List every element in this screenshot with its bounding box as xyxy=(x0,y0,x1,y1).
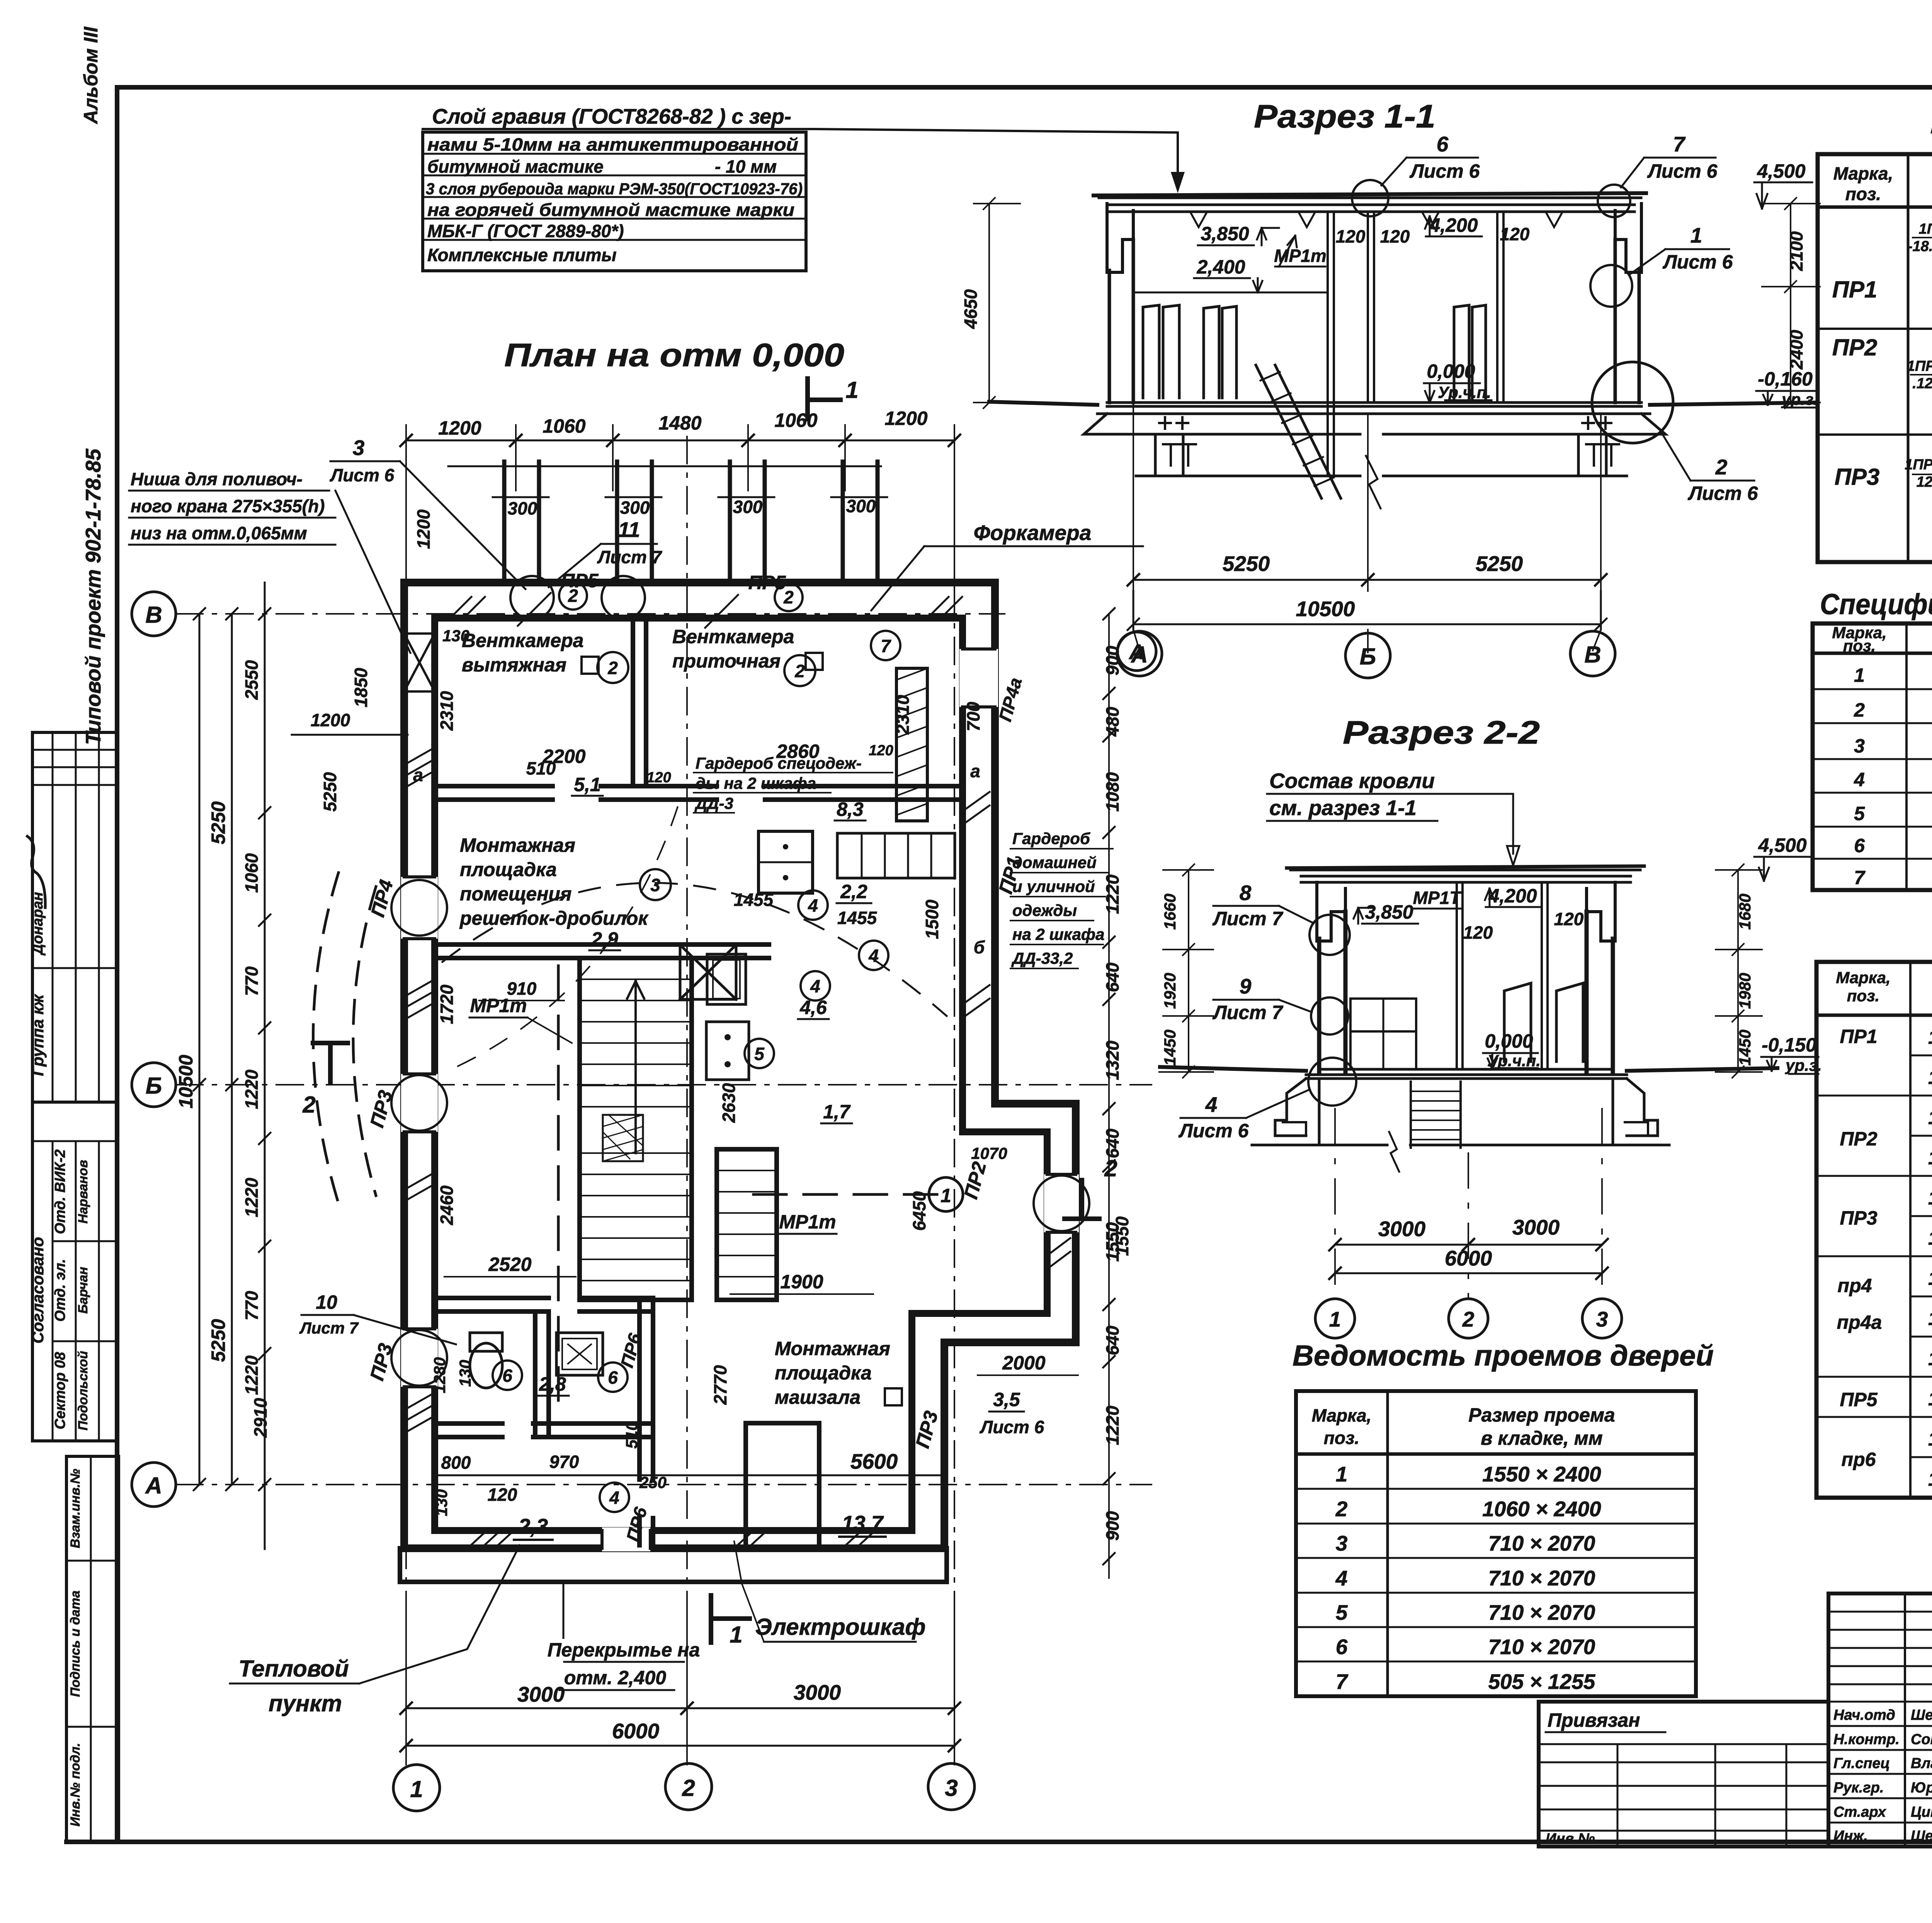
svg-text:вытяжная: вытяжная xyxy=(462,654,566,676)
svg-text:10500: 10500 xyxy=(1296,597,1355,621)
section dim line 10500 xyxy=(1133,623,1601,625)
spec line 1 underline xyxy=(423,128,815,130)
svg-text:ного крана 275×355(h): ного крана 275×355(h) xyxy=(131,496,325,516)
svg-text:1: 1 xyxy=(845,377,858,403)
LINTEL-SCHEDULE xyxy=(1818,104,1932,564)
svg-text:Отд. ВИК-2: Отд. ВИК-2 xyxy=(52,1149,68,1234)
svg-text:поз.: поз. xyxy=(1845,184,1881,204)
right wall xyxy=(1615,240,1639,403)
svg-text:2520: 2520 xyxy=(488,1254,531,1275)
LEFT-MARGIN xyxy=(15,26,119,1842)
svg-text:1850: 1850 xyxy=(351,668,371,707)
svg-text:1: 1 xyxy=(1336,1462,1348,1486)
svg-text:Венткамера: Венткамера xyxy=(672,626,794,647)
svg-text:- 10 мм: - 10 мм xyxy=(715,156,777,177)
circled room 6 b xyxy=(598,1362,628,1392)
fill spec outline xyxy=(1813,623,1932,890)
svg-text:1220: 1220 xyxy=(241,1355,262,1395)
left dim line section xyxy=(988,204,990,403)
leader from spec to section roof xyxy=(815,129,1178,182)
svg-text:5: 5 xyxy=(1336,1600,1348,1624)
axis bubble B xyxy=(132,1063,176,1107)
svg-text:Ведомость перемычек: Ведомость перемычек xyxy=(1930,104,1932,140)
svg-text:битумной мастике: битумной мастике xyxy=(427,156,604,177)
svg-text:300: 300 xyxy=(733,497,763,517)
svg-text:1720: 1720 xyxy=(437,984,457,1024)
section axis bubble V xyxy=(1570,631,1615,676)
svg-text:Лист 6: Лист 6 xyxy=(1663,251,1733,273)
svg-text:Марка,: Марка, xyxy=(1836,968,1890,987)
ground line right xyxy=(1650,403,1816,405)
svg-text:3: 3 xyxy=(1596,1307,1608,1331)
svg-text:отм. 2,400: отм. 2,400 xyxy=(564,1667,666,1689)
svg-text:1200: 1200 xyxy=(884,408,927,429)
circled room 6 a xyxy=(493,1361,522,1390)
svg-text:1ПР38-15.: 1ПР38-15. xyxy=(1905,457,1932,473)
top dim ticks xyxy=(400,435,960,446)
svg-text:4: 4 xyxy=(810,976,820,996)
svg-text:ПР2: ПР2 xyxy=(960,1159,990,1201)
svg-text:5600: 5600 xyxy=(850,1449,898,1473)
svg-text:1200: 1200 xyxy=(311,710,350,730)
svg-text:1500: 1500 xyxy=(922,899,942,939)
svg-text:6000: 6000 xyxy=(612,1719,660,1743)
svg-text:3: 3 xyxy=(650,875,660,895)
roof beam ticks xyxy=(1190,212,1563,227)
right dim 2-2 xyxy=(1737,870,1739,1072)
partition vent rooms horizontal xyxy=(435,786,963,800)
frame top border xyxy=(117,85,1932,90)
right dim ticks xyxy=(1103,608,1115,1565)
partition WC vertical xyxy=(535,1311,549,1437)
slab edge line below wall xyxy=(400,1548,947,1582)
svg-text:1.138 - 10 вып.1: 1.138 - 10 вып.1 xyxy=(1928,1388,1932,1410)
node circle 2 xyxy=(1592,362,1673,443)
svg-text:2: 2 xyxy=(607,658,618,678)
roof top edge xyxy=(1094,193,1646,195)
svg-text:3 слоя рубероида марки РЭМ-350: 3 слоя рубероида марки РЭМ-350(ГОСТ10923… xyxy=(426,180,803,198)
LINTEL-SPEC-TABLE xyxy=(1816,921,1932,1498)
second dim line xyxy=(448,465,881,467)
svg-text:2: 2 xyxy=(1104,1155,1117,1181)
svg-text:1.138 - 10 вып.1: 1.138 - 10 вып.1 xyxy=(1928,1468,1932,1490)
svg-text:Монтажная: Монтажная xyxy=(775,1338,890,1359)
axis line B horizontal xyxy=(176,1084,1151,1086)
svg-text:Шейко: Шейко xyxy=(1911,1707,1932,1723)
svg-text:2: 2 xyxy=(1335,1497,1348,1521)
svg-text:Б: Б xyxy=(1360,644,1376,669)
svg-text:1450: 1450 xyxy=(1161,1029,1179,1065)
second stair treads xyxy=(717,1170,777,1277)
left dim 2-2 xyxy=(1188,870,1189,1072)
circled room 4 a xyxy=(798,890,828,920)
fill spec header rule xyxy=(1813,652,1932,655)
circled room 5 xyxy=(745,1039,774,1068)
svg-text:1680: 1680 xyxy=(1736,894,1754,929)
svg-text:Б: Б xyxy=(146,1073,162,1099)
svg-text:поз.: поз. xyxy=(1843,637,1876,655)
niche leader xyxy=(335,491,410,653)
svg-text:6: 6 xyxy=(1336,1635,1348,1659)
PLAN-TITLE xyxy=(504,337,859,419)
wall opening white right annex xyxy=(1044,1174,1079,1232)
svg-text:6: 6 xyxy=(1854,835,1865,856)
svg-text:2,3: 2,3 xyxy=(518,1514,548,1538)
svg-text:1: 1 xyxy=(1854,664,1865,686)
svg-text:Шевлякова: Шевлякова xyxy=(1911,1828,1932,1844)
foundation 2-2 left xyxy=(1275,1079,1319,1145)
svg-text:ПР3: ПР3 xyxy=(1835,464,1880,490)
lintel spec row rules partial xyxy=(1910,1055,1932,1457)
svg-text:Инж.: Инж. xyxy=(1833,1828,1868,1844)
wall opening white left 2 xyxy=(401,1074,438,1132)
bottom dims 2-2 extensions xyxy=(1335,1109,1602,1298)
svg-text:120: 120 xyxy=(1554,909,1584,929)
right dim line xyxy=(1108,614,1110,1578)
svg-text:Отд. эл.: Отд. эл. xyxy=(52,1259,68,1322)
svg-text:4: 4 xyxy=(1205,1092,1218,1116)
svg-text:510: 510 xyxy=(526,758,556,778)
foundation footing rects xyxy=(1283,1122,1648,1136)
svg-text:2: 2 xyxy=(1854,699,1865,721)
svg-text:Тепловой: Тепловой xyxy=(238,1656,349,1682)
FILL-SPEC-TABLE xyxy=(1813,588,1932,892)
svg-text:1.138 - 10 вып.1: 1.138 - 10 вып.1 xyxy=(1928,1147,1932,1169)
signature grid columns xyxy=(1905,1593,1932,1847)
svg-text:Ст.арх: Ст.арх xyxy=(1833,1804,1887,1820)
breakline xyxy=(1366,456,1381,508)
svg-text:1450: 1450 xyxy=(1736,1029,1754,1065)
signature grid outline xyxy=(1828,1593,1932,1847)
svg-text:Спецификация элементов заполне: Спецификация элементов заполнения проемо… xyxy=(1820,588,1932,620)
interior column 2 xyxy=(1368,212,1374,403)
svg-text:Комплексные плиты: Комплексные плиты xyxy=(427,245,617,265)
fill spec row rules xyxy=(1813,689,1932,859)
svg-text:в кладке, мм: в кладке, мм xyxy=(1481,1427,1602,1449)
hatched duct shaft xyxy=(896,668,927,821)
wash basin lower xyxy=(556,1333,603,1375)
stair below 2-2 xyxy=(1411,1082,1461,1148)
svg-text:Лист 6: Лист 6 xyxy=(330,465,395,485)
opening circles left wall xyxy=(391,880,447,936)
svg-text:2550: 2550 xyxy=(241,660,262,700)
wall hatch bottom xyxy=(468,1531,875,1548)
foundation slab xyxy=(1084,414,1665,434)
left dim ticks xyxy=(194,608,270,1490)
svg-text:Лист 7: Лист 7 xyxy=(1213,908,1284,929)
door leafs 2-2 xyxy=(1504,983,1583,1062)
stair hatch patch xyxy=(603,1115,643,1161)
axis bubble 1 bottom xyxy=(393,1765,440,1811)
svg-text:4,200: 4,200 xyxy=(1429,214,1478,236)
room sign box 1 xyxy=(582,657,599,674)
svg-text:1900: 1900 xyxy=(780,1271,823,1293)
svg-text:Подольской: Подольской xyxy=(76,1351,90,1430)
svg-text:Монтажная: Монтажная xyxy=(460,834,575,856)
svg-text:1: 1 xyxy=(410,1776,423,1802)
svg-text:Привязан: Привязан xyxy=(1548,1709,1640,1731)
left wall xyxy=(1109,240,1133,403)
duct shaft hatch xyxy=(896,668,927,815)
lintel spec outline xyxy=(1816,962,1932,1498)
svg-text:10: 10 xyxy=(316,1291,337,1313)
left cornice xyxy=(1107,204,1133,272)
svg-text:9: 9 xyxy=(1240,974,1252,998)
lintel spec header rule xyxy=(1816,1014,1932,1017)
svg-text:Альбом III: Альбом III xyxy=(80,26,102,124)
svg-text:3000: 3000 xyxy=(794,1680,841,1704)
svg-text:Рук.гр.: Рук.гр. xyxy=(1833,1780,1884,1796)
left dim line mid xyxy=(231,614,233,1485)
svg-text:3: 3 xyxy=(1336,1531,1348,1555)
svg-text:1320: 1320 xyxy=(1102,1040,1122,1080)
frame left border xyxy=(115,87,119,1842)
stairwell enclosure xyxy=(580,958,692,1300)
ladder rungs xyxy=(1260,372,1334,486)
svg-text:11: 11 xyxy=(618,518,640,542)
partition WC lower horizontal xyxy=(435,1424,653,1437)
svg-text:3000: 3000 xyxy=(517,1682,565,1706)
svg-text:3: 3 xyxy=(1854,735,1865,757)
fill spec columns xyxy=(1906,623,1932,890)
axis bubble a right xyxy=(1117,632,1156,671)
circled room 4 bottom xyxy=(600,1483,629,1512)
svg-text:Лист 6: Лист 6 xyxy=(980,1417,1044,1437)
svg-text:на 2 шкафа: на 2 шкафа xyxy=(1012,925,1104,943)
dim line 3000s xyxy=(1335,1244,1602,1246)
axis line 3 vertical xyxy=(954,437,955,1765)
svg-text:1.138 - 10 вып.1: 1.138 - 10 вып.1 xyxy=(1928,1428,1932,1450)
svg-text:Ципюрик: Ципюрик xyxy=(1911,1804,1932,1820)
section dim line 5250 xyxy=(1133,579,1601,581)
svg-text:300: 300 xyxy=(508,498,537,518)
svg-text:ПР4а: ПР4а xyxy=(995,676,1026,724)
wall opening white right 1 xyxy=(959,649,998,707)
axis bubble 2 2-2 xyxy=(1449,1299,1488,1338)
svg-text:Перекрытье на: Перекрытье на xyxy=(548,1639,700,1661)
svg-text:Ур.ч.п.: Ур.ч.п. xyxy=(1438,383,1491,401)
svg-text:1.138 - 10 вып.1: 1.138 - 10 вып.1 xyxy=(1928,1267,1932,1289)
circled room 3 xyxy=(640,869,671,900)
svg-text:7: 7 xyxy=(881,636,891,656)
monorail dashed horizontal xyxy=(753,1193,939,1196)
axis bubble 1 2-2 xyxy=(1315,1299,1355,1338)
svg-text:А: А xyxy=(145,1473,162,1498)
svg-text:5250: 5250 xyxy=(1223,552,1270,576)
svg-text:План на отм 0,000: План на отм 0,000 xyxy=(504,337,844,373)
svg-text:3,850: 3,850 xyxy=(1201,223,1249,245)
circled room 2 b xyxy=(784,655,815,686)
room sign box 3 xyxy=(885,1388,902,1405)
wall below floor mid xyxy=(1328,403,1334,476)
svg-text:2910: 2910 xyxy=(250,1398,270,1438)
svg-text:Лист 6: Лист 6 xyxy=(1647,160,1718,182)
svg-text:Электрошкаф: Электрошкаф xyxy=(755,1614,925,1640)
left dim line outer xyxy=(199,614,201,1485)
section bottom dim extensions xyxy=(1133,403,1601,591)
frame bottom border xyxy=(66,1840,1932,1844)
svg-text:4,200: 4,200 xyxy=(1488,885,1537,907)
niche note underlines xyxy=(129,491,335,545)
svg-text:Слой гравия (ГОСТ8268-82 ) с: Слой гравия (ГОСТ8268-82 ) с зер- xyxy=(432,104,791,128)
lintel spec columns xyxy=(1910,962,1932,1498)
opening circles top wall xyxy=(510,576,554,619)
svg-text:640: 640 xyxy=(1102,1325,1122,1355)
table L row rules xyxy=(1818,329,1932,435)
svg-text:900: 900 xyxy=(1102,1511,1122,1541)
svg-text:5250: 5250 xyxy=(207,801,229,844)
interior columns 2-2 xyxy=(1457,882,1548,1069)
section axis bubble B xyxy=(1345,633,1390,678)
svg-text:-0,150: -0,150 xyxy=(1762,1034,1816,1056)
svg-text:Разрез 1-1: Разрез 1-1 xyxy=(1254,98,1435,134)
svg-text:4: 4 xyxy=(808,895,818,916)
svg-text:1920: 1920 xyxy=(1161,973,1179,1009)
svg-text:1060: 1060 xyxy=(241,853,262,893)
svg-text:Венткамера: Венткамера xyxy=(462,630,583,651)
stair hatch lines xyxy=(603,1115,643,1161)
anchor crosses left xyxy=(1159,417,1611,429)
svg-text:8: 8 xyxy=(1240,881,1252,905)
table L column divider xyxy=(1907,154,1910,562)
svg-text:8,3: 8,3 xyxy=(837,798,864,820)
svg-text:пункт: пункт xyxy=(269,1690,342,1716)
svg-text:Состав кровли: Состав кровли xyxy=(1269,769,1435,793)
svg-text:3,850: 3,850 xyxy=(1365,901,1413,923)
svg-text:Нач.отд: Нач.отд xyxy=(1833,1707,1895,1723)
svg-text:ПР3: ПР3 xyxy=(912,1408,942,1450)
circled room 4 b xyxy=(859,941,888,970)
lower sink block xyxy=(706,1022,749,1080)
svg-text:Типовой проект 902-1-78.85: Типовой проект 902-1-78.85 xyxy=(81,448,105,745)
right dim line section xyxy=(1790,204,1791,403)
svg-text:1.138 - 10 вып.1: 1.138 - 10 вып.1 xyxy=(1928,1107,1932,1128)
svg-text:2310: 2310 xyxy=(893,695,913,735)
svg-text:2460: 2460 xyxy=(437,1185,457,1225)
door table header rule xyxy=(1296,1452,1696,1456)
svg-text:Гардероб: Гардероб xyxy=(1012,829,1090,848)
washstand X box xyxy=(680,945,736,999)
svg-text:120: 120 xyxy=(1336,226,1366,246)
svg-text:1.138 - 10 вып.1: 1.138 - 10 вып.1 xyxy=(1928,1348,1932,1369)
svg-text:1660: 1660 xyxy=(1161,894,1179,929)
svg-text:505 × 1255: 505 × 1255 xyxy=(1488,1670,1596,1694)
svg-text:510: 510 xyxy=(622,1422,641,1449)
svg-text:300: 300 xyxy=(620,498,650,518)
svg-text:3000: 3000 xyxy=(1512,1215,1560,1239)
svg-text:а: а xyxy=(970,761,980,781)
bottom strip divider vertical xyxy=(90,1456,92,1842)
toilet bowl xyxy=(470,1343,502,1388)
svg-text:-18.12.22У: -18.12.22У xyxy=(1908,238,1932,255)
ground line right 2-2 xyxy=(1627,1068,1777,1071)
svg-text:1.138 - 10 вып.1: 1.138 - 10 вып.1 xyxy=(1928,1227,1932,1249)
svg-text:а: а xyxy=(413,765,423,785)
stair rungs 2-2 xyxy=(1411,1091,1461,1140)
electro cabinet xyxy=(746,1423,819,1547)
foundation bottom 2-2 xyxy=(1252,1144,1669,1147)
svg-text:6000: 6000 xyxy=(1445,1246,1492,1270)
door table row rules xyxy=(1296,1489,1696,1661)
svg-text:Группа кж: Группа кж xyxy=(29,994,47,1076)
axis bubble 3 bottom xyxy=(928,1763,975,1810)
svg-text:2,9: 2,9 xyxy=(591,928,618,950)
door leafs left room pair2 xyxy=(1204,306,1236,398)
svg-text:4: 4 xyxy=(1854,769,1865,790)
svg-text:2,400: 2,400 xyxy=(1196,256,1245,278)
door table outline xyxy=(1296,1391,1696,1696)
svg-text:5: 5 xyxy=(754,1044,765,1064)
bottom dim line 1 xyxy=(406,1707,954,1709)
partition between vent rooms vertical xyxy=(633,618,646,786)
svg-text:7: 7 xyxy=(1336,1670,1349,1694)
svg-text:3: 3 xyxy=(945,1775,957,1801)
bottom strip outline xyxy=(66,1456,119,1842)
svg-text:5250: 5250 xyxy=(1476,552,1523,576)
svg-text:1: 1 xyxy=(940,1185,951,1206)
svg-text:приточная: приточная xyxy=(672,650,781,672)
svg-text:ПР1: ПР1 xyxy=(1840,1026,1877,1047)
svg-text:низ на отм.0,065мм: низ на отм.0,065мм xyxy=(131,523,307,543)
svg-text:Н.контр.: Н.контр. xyxy=(1833,1731,1900,1748)
signature squiggle xyxy=(15,836,60,908)
svg-text:1220: 1220 xyxy=(1102,874,1122,914)
svg-text:1200: 1200 xyxy=(438,417,481,439)
wall hatch top xyxy=(450,597,962,618)
axis line A horizontal xyxy=(176,1484,1151,1485)
svg-text:2: 2 xyxy=(302,1092,315,1118)
svg-text:Донаран: Донаран xyxy=(30,892,46,956)
svg-text:Форкамера: Форкамера xyxy=(974,521,1092,545)
bottom dim line 2 xyxy=(406,1745,954,1747)
svg-text:120: 120 xyxy=(646,770,671,786)
stair up arrow xyxy=(627,981,644,1153)
circled room 7 xyxy=(871,631,900,660)
stair treads xyxy=(580,979,692,1281)
svg-text:.12.22У: .12.22У xyxy=(1912,375,1932,392)
svg-text:ПР2: ПР2 xyxy=(1832,335,1878,360)
svg-text:Взам.инв.№: Взам.инв.№ xyxy=(68,1469,83,1548)
svg-text:1: 1 xyxy=(1329,1307,1341,1331)
svg-text:Инв.№ подл.: Инв.№ подл. xyxy=(68,1743,83,1827)
niche X box top left xyxy=(404,634,435,691)
svg-text:1455: 1455 xyxy=(734,890,774,910)
svg-text:домашней: домашней xyxy=(1012,853,1097,871)
svg-text:МР1Т: МР1Т xyxy=(1413,888,1462,908)
svg-text:120: 120 xyxy=(1463,922,1493,943)
crane arc inside plan xyxy=(442,883,947,1016)
svg-text:и уличной: и уличной xyxy=(1012,877,1095,895)
svg-text:6: 6 xyxy=(502,1366,512,1386)
svg-text:120: 120 xyxy=(1380,226,1410,246)
svg-text:3000: 3000 xyxy=(1378,1217,1426,1241)
lintel spec group rules xyxy=(1816,1096,1910,1417)
floor slab xyxy=(1097,403,1650,414)
svg-text:2000: 2000 xyxy=(1002,1352,1045,1374)
svg-text:710 × 2070: 710 × 2070 xyxy=(1488,1566,1595,1590)
svg-text:на горячей битумной мастике ма: на горячей битумной мастике марки xyxy=(427,200,794,220)
svg-text:одежды: одежды xyxy=(1012,901,1077,919)
svg-text:120: 120 xyxy=(1500,224,1530,244)
level line 2400 left room xyxy=(1133,292,1328,294)
svg-text:А: А xyxy=(1130,642,1148,668)
door leaf right room xyxy=(1454,305,1486,398)
svg-text:2,2: 2,2 xyxy=(840,881,867,902)
svg-text:1220: 1220 xyxy=(241,1069,262,1109)
bottom strip dividers horizontal xyxy=(66,1561,119,1727)
svg-text:ПР5: ПР5 xyxy=(561,570,599,591)
svg-text:площадка: площадка xyxy=(460,859,557,880)
